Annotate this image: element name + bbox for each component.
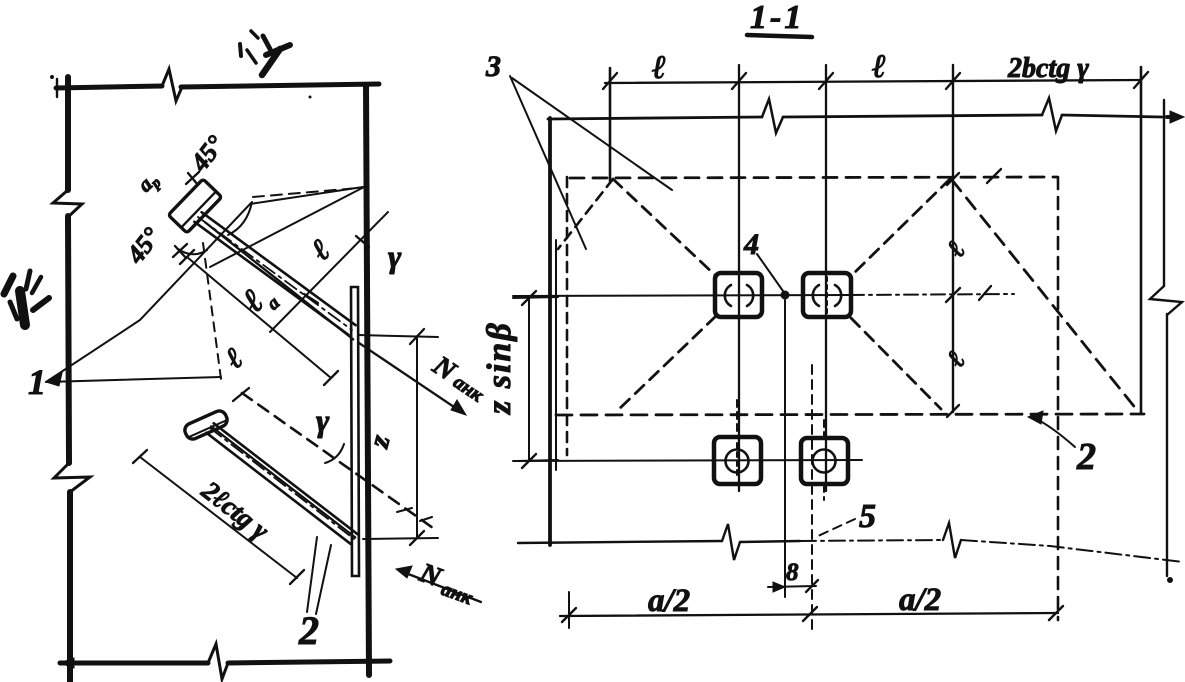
tick ap upper [186,172,199,185]
svg-text:ap: ap [133,166,165,198]
force arrow Nank upper [359,343,460,411]
break symbol left edge lower [54,463,90,492]
tick z sin top [522,291,536,305]
tick inner dim bottom [947,405,959,417]
dashed line from head to face [253,188,358,197]
cone dashed plate1 to bottom [616,316,716,412]
break symbol right outer [1150,286,1182,315]
svg-text:8: 8 [786,559,799,586]
section mark top (1 with arrow) [251,31,258,38]
extension bottom left [568,592,570,628]
break symbol bottom edge 1 [722,524,740,560]
arrow right end wall top [1167,115,1178,119]
gap line solid [784,300,786,597]
stray dashes right of plate [397,508,432,521]
embedded plate dashed right edge [1057,177,1060,620]
embedded plate dashed top edge [570,177,1057,178]
gamma angle arc lower [325,444,344,463]
weld dot [781,291,790,300]
svg-text:1-1: 1-1 [750,0,804,36]
dim line 8 [768,586,816,587]
z sin extension bottom [518,460,558,461]
top dimension line [605,80,1141,83]
tick ell-a start [180,250,194,264]
tick ell ur 2 [304,294,318,303]
tick diagonal start [987,169,1001,183]
rod circle lower right [813,450,836,473]
gap line dashed [811,365,813,634]
leader 2 right [1034,418,1075,447]
tick top dim x826 [819,73,833,89]
tick bottom dim right [1049,606,1063,620]
long dashed diagonal right [952,180,1137,410]
cone dashed left apex to plate1 [613,179,716,276]
svg-text:γ: γ [388,238,402,274]
anchor plate upper right [803,273,851,317]
column left edge [68,77,70,682]
corner tick top-left [56,79,58,97]
svg-text:a/2: a/2 [899,582,941,618]
cone dashed left apex to left [558,179,613,249]
label ell-a [236,275,285,325]
z dimension line [416,336,418,538]
arrow 8 [773,582,785,592]
leader 3 a [510,76,586,249]
break symbol wall top 1 [762,99,783,133]
leader 4 [757,254,783,291]
svg-text:4: 4 [743,228,759,261]
tick z sin bottom [522,454,536,468]
leader line 1 upper [46,203,251,382]
leader 5 dashed [818,519,855,536]
speck dot corner [50,75,54,79]
speck dot mid [309,96,312,99]
tick 45 lower [173,244,187,258]
rod circle upper left [725,285,753,306]
column right edge (face) [366,85,369,675]
wall left edge inner [555,240,557,470]
anchor rod 1 centerline [198,217,352,330]
tick D2 start [233,388,249,401]
leader 2 a [307,537,317,612]
tick top dim x610 [603,73,617,89]
force arrow Nank lower [403,572,481,602]
section mark left (1 with arrow) [4,276,13,294]
arrowhead leader 2 [1028,411,1043,424]
embedded plate dashed left edge [566,177,569,455]
extension line x1141 [1140,67,1143,413]
title underline [747,35,812,37]
dimension line ell upper right [270,212,388,332]
column top edge [56,84,379,88]
svg-text:ℓ: ℓ [872,49,886,85]
dimension line ell-a [187,257,331,378]
wall left edge [548,118,552,545]
svg-text:45°: 45° [120,222,166,270]
anchor plate lower right [801,438,848,484]
break symbol top edge [162,69,182,101]
break symbol bottom edge 2 [943,523,961,558]
svg-text:z sinβ: z sinβ [481,321,518,415]
extension/rod line x826 [825,65,827,491]
tick 8 right [806,580,818,592]
bottom dimension line [560,613,1058,616]
tick top dim x739 [732,73,746,89]
tick 2lctg end [290,570,304,584]
tick centerline x953 [946,288,960,302]
tick top dim x1141 [1134,72,1148,88]
tick z top [410,329,424,344]
arrowhead bottom line left [60,658,74,668]
anchor rod 2 centerline [210,428,354,539]
anchor plate lower left [714,437,761,484]
leader 2 b [316,545,331,614]
extension line x610 [609,68,612,181]
svg-text:2bctg γ: 2bctg γ [1007,53,1089,84]
face plate [351,287,359,576]
break symbol left edge upper [53,190,82,217]
bottom edge dash-dot 1 [800,540,943,541]
svg-text:ℓ: ℓ [652,50,666,86]
z dimension extension bottom [363,538,438,539]
anchor head T lower [183,409,230,442]
svg-text:анк: анк [438,578,476,610]
tick inner dim top [947,173,959,185]
wall top edge [548,115,1162,119]
leader line 1 lower [46,377,221,382]
svg-text:ℓ: ℓ [940,346,971,373]
tick z bottom [410,531,424,545]
cone dashed right apex to plate2 [851,179,950,276]
anchor rod 1 outer lines [202,212,356,325]
dashed line D2 parallel to rods [242,393,433,528]
z sin extension top [513,297,558,298]
svg-text:1: 1 [28,362,46,402]
svg-text:3: 3 [485,50,501,83]
svg-text:a/2: a/2 [648,583,690,619]
embedded plate dashed bottom edge [556,414,1144,415]
svg-text:2: 2 [1076,436,1096,478]
anchor head plate upper [168,179,221,233]
rod circle upper right [813,285,841,306]
svg-text:ℓ: ℓ [940,236,971,263]
dimension line 2l ctg gamma [140,457,297,578]
45 deg arc upper [228,202,252,235]
anchor plate upper left [715,273,762,317]
z sin dimension line [528,298,530,461]
rod dash upper right [826,277,828,313]
z dimension extension top [358,335,438,337]
tick bottom dim mid [803,607,817,621]
centerline upper row dash-dot [850,294,1014,295]
break symbol wall top 2 [1042,98,1062,131]
45 deg arc lower-left [178,249,207,254]
svg-text:ℓ: ℓ [304,232,337,267]
rod circle lower left [726,450,749,473]
lower plate centerline stub 1 [736,400,738,436]
svg-text:ℓ: ℓ [219,342,249,376]
dot bottom right outer [1167,577,1173,583]
leader arrowhead [46,373,62,386]
tick 2lctg start [133,450,147,463]
break symbol bottom edge [208,644,228,679]
svg-text:γ: γ [316,402,330,438]
column bottom edge [60,661,390,663]
extension line x953 [952,65,954,412]
tick centerline x985 [979,286,991,300]
centerline lower row [513,460,862,461]
construction line apex to face top [250,187,363,204]
dashed line vertical D1 [203,243,221,379]
tick ell-a end [324,371,338,385]
extension/rod line x739 [738,65,740,491]
centerline upper row solid [513,295,850,296]
fan line face top to head [210,186,366,267]
rod cross lower left [736,443,738,479]
tick ell ur 1 [356,236,369,247]
lower plate centerline stub 2 [823,420,825,500]
svg-text:5: 5 [859,498,876,535]
tick bottom dim left [562,608,576,622]
tick top dim x953 [946,73,960,89]
bottom edge dash-dot 2 [961,540,1183,562]
rod dash upper left [738,277,740,313]
right outer line x1164 [1164,100,1167,576]
leader 3 b [512,78,672,190]
svg-text:45°: 45° [184,130,230,178]
cone dashed plate2 to bottom [851,318,941,409]
anchor rod 2 outer lines [214,423,358,534]
bottom edge solid [518,541,800,543]
